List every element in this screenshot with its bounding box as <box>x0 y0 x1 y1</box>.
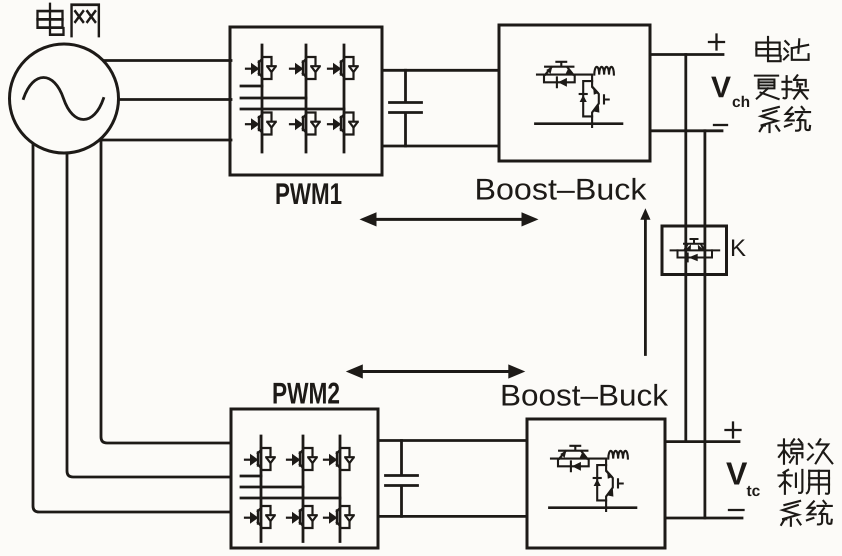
PWM1 phase line 1 <box>241 85 262 88</box>
svg-text:Boost–Buck: Boost–Buck <box>474 174 647 207</box>
svg-text:Boost–Buck: Boost–Buck <box>500 380 669 413</box>
diode D1 (antiparallel with S1) <box>544 75 575 83</box>
IGBT Q4 <box>246 113 276 135</box>
wire PWM1 to Boost-Buck top (-) <box>382 145 499 148</box>
label geng (battery swap) <box>755 76 779 99</box>
wire PWM1 to Boost-Buck top (+) <box>382 69 499 72</box>
switch K internals <box>671 239 720 261</box>
PWM1 leg column 2 <box>305 45 308 152</box>
IGBT Q1 <box>246 57 276 79</box>
PWM1 box <box>230 27 382 175</box>
wire PWM2 to Boost-Buck bottom (-) <box>378 515 527 518</box>
IGBT Q6 <box>328 113 358 135</box>
label dian (grid) <box>38 4 64 35</box>
plus sign Vch <box>709 35 724 50</box>
wire Boost-Buck bottom to +Vtc <box>665 440 739 443</box>
sine wave inside source <box>24 78 104 120</box>
svg-text:V: V <box>726 456 748 492</box>
label ti (echelon use) <box>778 439 802 463</box>
PWM2 leg column 2 <box>302 436 305 542</box>
IGBT Q7 <box>245 448 275 470</box>
Boost-Buck converter internals (top) <box>535 62 622 127</box>
minus sign Vch <box>714 124 727 126</box>
IGBT Q10 <box>245 506 275 528</box>
transistor S2 (shunt switch) <box>592 75 599 127</box>
capacitor C1 <box>390 70 422 146</box>
wire grid phase A to PWM1 <box>64 59 231 62</box>
wire Boost-Buck top to +Vch <box>650 53 723 56</box>
label tong (echelon use) <box>807 501 832 525</box>
bus wire +Vch down to +Vtc <box>684 55 687 442</box>
plus sign Vtc <box>726 423 741 438</box>
label dian (battery swap) <box>756 37 780 61</box>
wire grid phase A down to PWM2 <box>33 98 231 512</box>
transistor switch K <box>684 239 705 244</box>
label huan (battery swap) <box>782 75 808 98</box>
label tong (battery swap) <box>785 107 810 131</box>
wire Boost-Buck bottom to -Vtc <box>665 517 742 520</box>
IGBT Q3 <box>328 57 358 79</box>
PWM2 leg column 1 <box>260 436 263 542</box>
wire grid phase B down to PWM2 <box>67 98 231 477</box>
svg-text:PWM2: PWM2 <box>272 378 340 411</box>
bus wire -Vch down to -Vtc <box>704 131 707 518</box>
PWM2 box <box>231 409 378 548</box>
minus sign Vtc <box>729 509 744 511</box>
inductor L1 <box>594 67 614 75</box>
IGBT Q12 <box>324 506 354 528</box>
arrow PWM2-BoostBuck bidirectional <box>346 364 526 378</box>
IGBT Q11 <box>287 506 317 528</box>
IGBT Q2 <box>290 57 320 79</box>
Boost-Buck box top <box>499 25 650 161</box>
Boost-Buck box bottom <box>527 419 665 548</box>
label xi (battery swap) <box>760 107 780 132</box>
wire grid phase C to PWM1 <box>64 139 231 142</box>
label yong (echelon use) <box>807 471 829 494</box>
diode of switch K <box>678 250 713 257</box>
PWM1 leg column 1 <box>261 45 264 152</box>
svg-text:V: V <box>711 71 731 104</box>
svg-text:ch: ch <box>732 94 750 111</box>
ground rail <box>535 122 622 125</box>
svg-text:tc: tc <box>746 483 760 500</box>
label chi (battery swap) <box>784 39 809 59</box>
wire Boost-Buck top to -Vch <box>650 129 722 132</box>
PWM1 phase line 2 <box>241 97 306 100</box>
AC source circle (grid) <box>10 44 119 153</box>
capacitor C2 <box>386 441 418 517</box>
wire grid phase B to PWM1 <box>64 98 231 101</box>
IGBT Q8 <box>287 448 317 470</box>
wire grid phase C down to PWM2 <box>101 98 231 443</box>
label ci (echelon use) <box>808 439 832 463</box>
label wang (grid) <box>72 5 99 36</box>
svg-text:PWM1: PWM1 <box>275 178 342 211</box>
arrow up to K <box>640 208 650 354</box>
arrow PWM1-BoostBuck bidirectional <box>360 212 539 226</box>
IGBT Q5 <box>290 113 320 135</box>
Boost-Buck converter internals (bottom) <box>549 446 636 511</box>
PWM2 phase line 2 <box>241 486 303 489</box>
wire K through line <box>671 249 720 251</box>
diode D2 (antiparallel with S2) <box>583 81 592 116</box>
wire input node <box>537 74 592 76</box>
PWM1 phase line 3 <box>241 108 344 111</box>
svg-text:K: K <box>730 235 746 262</box>
PWM2 leg column 3 <box>339 436 342 542</box>
label li (echelon use) <box>778 470 802 494</box>
IGBT Q9 <box>324 448 354 470</box>
K box <box>662 226 727 275</box>
label xi (echelon use) <box>781 501 800 526</box>
PWM1 leg column 3 <box>343 45 346 152</box>
transistor S1 (series switch) <box>545 62 573 67</box>
PWM2 phase line 1 <box>241 475 261 478</box>
PWM2 phase line 3 <box>241 497 340 500</box>
wire PWM2 to Boost-Buck bottom (+) <box>378 439 527 442</box>
